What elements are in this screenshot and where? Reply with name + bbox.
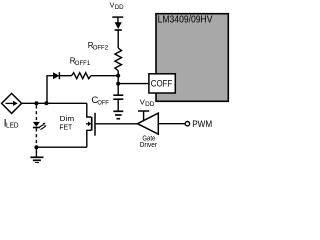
svg-text:OFF1: OFF1 [75, 60, 91, 67]
svg-text:Driver: Driver [140, 140, 158, 149]
svg-text:LM3409/09HV: LM3409/09HV [158, 14, 213, 25]
svg-text:COFF: COFF [151, 78, 173, 89]
svg-text:OFF2: OFF2 [93, 45, 109, 52]
svg-text:OFF: OFF [97, 99, 109, 106]
svg-text:LED: LED [6, 121, 19, 130]
svg-text:FET: FET [59, 122, 72, 131]
svg-text:DD: DD [115, 4, 124, 11]
svg-text:DD: DD [145, 101, 155, 108]
svg-text:PWM: PWM [192, 119, 212, 130]
